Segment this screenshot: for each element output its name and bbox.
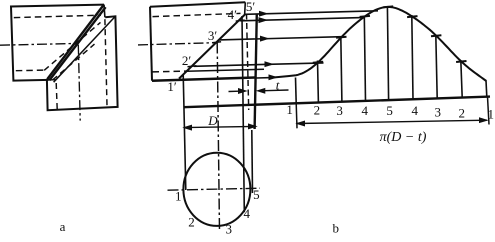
svg-text:1: 1 (488, 107, 495, 122)
inner wall bottom (dashed) (153, 70, 187, 73)
dimension line D (184, 126, 256, 127)
development base line (184, 97, 491, 108)
svg-text:3: 3 (435, 105, 442, 120)
curve tick 1 (313, 62, 323, 63)
miter joint strip line 2 (49, 7, 105, 80)
t dimension right arrow (265, 89, 289, 92)
svg-text:1: 1 (175, 188, 182, 203)
inner miter 2 (dashed) (53, 44, 95, 80)
generator 1 (right) (485, 81, 488, 97)
front view top edge (150, 2, 245, 6)
svg-text:4′: 4′ (228, 7, 238, 22)
miter cut line 1'-5' (179, 15, 245, 79)
svg-text:2: 2 (314, 103, 321, 118)
development curve (272, 7, 487, 81)
generator 2 (right) (461, 60, 462, 98)
svg-text:3′: 3′ (208, 28, 218, 43)
horizontal pipe inner wall top (dashed) (14, 15, 101, 17)
horizontal pipe right edge (short, to joint) (103, 5, 106, 18)
aux line at inner point 1 level (187, 69, 265, 71)
generator 5 (387, 6, 388, 100)
generator 4 (364, 16, 365, 101)
miter joint strip line 1 (47, 5, 103, 79)
svg-text:4: 4 (412, 103, 419, 118)
projection line from 4' down to circle point 4 (242, 16, 244, 212)
vertical pipe inner wall left (dashed) (56, 83, 57, 109)
curve tick 5 (407, 16, 417, 17)
curve tick 7 (456, 61, 466, 62)
tick at 4' (236, 20, 245, 21)
svg-text:2: 2 (459, 106, 466, 121)
miter joint strip line 3 (54, 16, 116, 82)
svg-text:b: b (333, 221, 340, 236)
svg-text:2′: 2′ (182, 53, 192, 68)
horizontal pipe inner wall bottom (dashed) (16, 69, 44, 72)
right edge of pipe (thick) (255, 14, 257, 130)
t dimension left arrow (229, 90, 240, 92)
svg-text:1: 1 (286, 102, 293, 117)
svg-text:D: D (207, 113, 218, 128)
corner vertical at 5' (244, 2, 247, 15)
curve tick 6 (431, 35, 441, 36)
svg-text:4: 4 (362, 103, 369, 118)
transfer line level 1' (257, 77, 272, 79)
inner miter (dashed) (44, 22, 100, 70)
svg-text:a: a (60, 219, 66, 234)
front view left edge (150, 7, 152, 81)
transfer line level 4' (241, 18, 363, 21)
transfer line level 3' (219, 37, 342, 40)
projection line down to circle point 5 (251, 130, 254, 193)
generator 1 (left) (295, 78, 298, 104)
vertical pipe axis (dash-dot) (78, 45, 80, 121)
bottom edge stub (49, 79, 57, 81)
generator 2 (317, 61, 320, 103)
curve tick 2 (336, 37, 346, 38)
horizontal centerline of circle (dash-dot) (168, 188, 261, 190)
generator 3 (right) (436, 35, 437, 99)
inner wall top (dashed) (153, 13, 241, 16)
svg-text:3: 3 (226, 222, 233, 237)
svg-text:5: 5 (386, 103, 393, 118)
svg-text:5: 5 (253, 187, 260, 202)
centre projection line 3-3' (dash-dot) (217, 43, 219, 232)
extension line below generator 1 right (488, 97, 490, 125)
dimension line pi(D-t) (297, 120, 487, 123)
generator 3 (341, 36, 342, 102)
svg-text:π(D − t): π(D − t) (380, 130, 427, 145)
transfer line level 2' (194, 63, 324, 66)
horizontal pipe axis (dash-dot) (0, 43, 78, 45)
extension line below generator 1 left (295, 103, 298, 128)
svg-text:3: 3 (336, 103, 343, 118)
horizontal pipe outline (upper square) (11, 5, 104, 81)
svg-text:2: 2 (188, 215, 195, 230)
svg-text:4: 4 (244, 206, 251, 221)
tick at 2' (188, 66, 197, 67)
axis (dash-dot) (138, 43, 216, 45)
curve tick 4 (383, 6, 393, 7)
svg-text:1′: 1′ (167, 79, 177, 94)
projection line from 1' down to circle point 1 (183, 74, 186, 190)
inner wall right (dashed vertical) (247, 14, 249, 111)
transfer line level 5' (245, 11, 378, 15)
svg-text:5′: 5′ (246, 0, 256, 14)
generator 4 (right) (412, 15, 413, 99)
svg-text:t: t (276, 78, 280, 93)
circle cross-section (183, 153, 250, 226)
front view bottom edge (152, 77, 257, 80)
vertical pipe outline (lower square) (47, 16, 118, 110)
curve tick 3 (360, 16, 370, 17)
vertical pipe inner wall right / hidden edge (dashed) (105, 19, 107, 105)
tick at 3' (212, 42, 221, 43)
